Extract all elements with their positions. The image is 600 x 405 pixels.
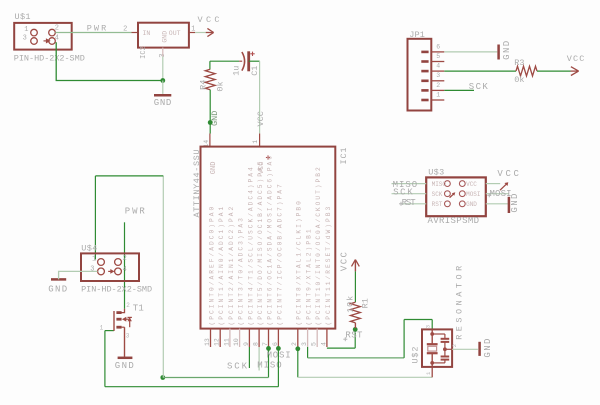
svg-text:U$3: U$3	[428, 168, 444, 178]
junction below IC2	[160, 78, 165, 83]
connector U$3 orientation arrow	[450, 194, 454, 198]
svg-text:6: 6	[272, 342, 279, 346]
svg-text:(PCINT10/INT0/OC0A/CKOUT)PB2: (PCINT10/INT0/OC0A/CKOUT)PB2	[315, 167, 322, 325]
op IC1 ATTINY44-SSU body	[201, 147, 336, 329]
svg-text:(PCINT1/AIN0/ADC1)PA1: (PCINT1/AIN0/ADC1)PA1	[218, 207, 225, 326]
IC1 pin 6 stub	[277, 329, 279, 347]
regulator IC2 IN stub	[132, 32, 139, 34]
svg-text:GND: GND	[502, 41, 512, 60]
wire U$3 RST	[401, 203, 427, 205]
svg-text:GND: GND	[48, 285, 67, 295]
svg-text:2: 2	[126, 302, 130, 309]
svg-text:(PCINT0/AREF/ADC0)PA0: (PCINT0/AREF/ADC0)PA0	[208, 207, 215, 326]
svg-text:RST: RST	[345, 331, 363, 341]
IC1 pin 10 stub	[239, 329, 241, 347]
svg-text:U$4: U$4	[81, 244, 97, 254]
svg-text:13: 13	[204, 338, 211, 346]
svg-text:1u: 1u	[231, 66, 241, 76]
wire RST horizontal from pin4	[327, 347, 355, 349]
resistor R1	[351, 302, 361, 323]
svg-text:MISO: MISO	[432, 181, 447, 188]
resonator U$2 body	[422, 329, 452, 367]
svg-text:11: 11	[223, 338, 230, 346]
resonator junction top	[430, 332, 434, 336]
connector U$1 pad 1	[31, 29, 38, 36]
junction MOSI-to-left-riser	[160, 375, 165, 380]
svg-text:2: 2	[123, 255, 127, 263]
connector U$4 pad 3	[98, 268, 105, 275]
junction PB0 at pin2	[295, 346, 300, 351]
supply VCC arrow (R1)	[354, 260, 356, 271]
wire PA7 from pin6 down	[277, 347, 279, 387]
svg-text:1: 1	[100, 324, 104, 331]
MOSI origin cross (U$3)	[487, 194, 491, 196]
regulator IC2 body	[138, 23, 189, 48]
svg-text:7: 7	[262, 342, 269, 346]
resonator crystal top plate	[427, 343, 438, 345]
svg-text:3: 3	[424, 325, 431, 328]
svg-text:SCK: SCK	[393, 188, 413, 198]
svg-text:1: 1	[24, 26, 28, 34]
transistor T1 channel bars	[116, 311, 121, 314]
wire IC2 GND to junction	[162, 57, 164, 81]
connector U$1 pad 2	[49, 29, 56, 36]
svg-text:GND: GND	[483, 339, 493, 358]
resistor R3	[516, 66, 537, 76]
junction RST at R1 bottom	[353, 327, 358, 332]
transistor T1 source link	[122, 326, 125, 328]
svg-text:IC1: IC1	[339, 148, 349, 165]
svg-text:R4: R4	[199, 80, 209, 90]
ground symbol below IC2	[154, 94, 171, 97]
wire junction to GND symbol	[162, 81, 164, 94]
connector U$4 pad 1	[98, 259, 105, 266]
svg-text:2: 2	[55, 24, 59, 32]
connector U$3 body	[426, 177, 486, 216]
svg-text:GND: GND	[510, 194, 520, 213]
svg-text:RESONATOR: RESONATOR	[455, 266, 465, 340]
wire RST riser to R1	[354, 329, 356, 348]
wire MOSI net top horizontal	[95, 175, 163, 177]
connector U$4 pin4 arrow	[108, 270, 110, 272]
resonator crystal rail bottom	[431, 353, 433, 367]
ground symbol left of U$4	[51, 278, 66, 281]
svg-text:0k: 0k	[215, 81, 225, 91]
wire PB1 horizontal	[308, 357, 405, 359]
wire C1 left to R4 top	[210, 60, 239, 62]
IC1 pin 5 stub	[316, 329, 318, 347]
connector JP1 pad 6	[421, 51, 428, 54]
wire VCC net down to IC1 pin1	[259, 61, 261, 133]
svg-text:8: 8	[253, 342, 260, 346]
svg-text:5: 5	[311, 342, 318, 346]
connector U$3 right pad row 1	[459, 181, 465, 187]
svg-text:3: 3	[90, 265, 94, 273]
svg-text:PIN-HD-2X2-SMD: PIN-HD-2X2-SMD	[81, 285, 152, 295]
svg-text:PWR: PWR	[87, 24, 107, 34]
svg-text:PIN-HD-2X2-SMD: PIN-HD-2X2-SMD	[14, 54, 85, 64]
wire IC2 OUT to VCC	[195, 32, 206, 34]
svg-text:(PCINT2/AIN1/ADC2)PA2: (PCINT2/AIN1/ADC2)PA2	[228, 207, 235, 326]
IC1 pin 2 stub	[297, 329, 299, 347]
svg-text:RST: RST	[432, 201, 443, 208]
ground symbol right of resonator	[478, 342, 481, 356]
connector JP1 pad 4	[421, 70, 428, 73]
IC1 pin 13 stub	[210, 329, 212, 347]
connector U$4 pad 2	[115, 259, 122, 266]
svg-text:4: 4	[320, 342, 327, 346]
svg-text:SCK: SCK	[469, 82, 489, 92]
svg-text:GND: GND	[210, 162, 218, 175]
ground symbol at JP1	[497, 45, 500, 60]
connector JP1 body	[408, 39, 432, 111]
RST label origin cross	[343, 338, 347, 340]
transistor T1 drain lead	[121, 309, 124, 313]
svg-text:GND: GND	[162, 31, 169, 43]
capacitor C1 left lead	[239, 60, 242, 62]
svg-text:10: 10	[233, 338, 240, 346]
connector U$3 right pad row 2	[459, 191, 465, 197]
wire U$3 MOSI	[486, 193, 509, 195]
regulator IC2 OUT stub	[189, 32, 195, 34]
capacitor C1 curved plate	[242, 52, 245, 71]
wire resonator pin2 to GND	[452, 348, 478, 350]
wire MISO stub from pin8	[258, 347, 260, 371]
IC1 pin 14 stub	[209, 134, 211, 147]
connector JP1 pin 2 stub	[431, 89, 444, 91]
svg-text:(PCINT9/XTAL2)PB1: (PCINT9/XTAL2)PB1	[306, 229, 313, 325]
resonator junction bottom	[430, 361, 434, 365]
IC1 pin 8 stub	[258, 329, 260, 347]
connector U$1 pad 4	[49, 38, 56, 45]
svg-text:9: 9	[243, 342, 250, 346]
svg-text:C1: C1	[250, 66, 260, 76]
connector U$3 left pad row 3	[445, 201, 451, 207]
svg-text:2: 2	[451, 344, 458, 347]
wire down to U$4 pin1	[94, 176, 96, 260]
wire PB0 down	[297, 347, 299, 377]
svg-text:RST: RST	[402, 198, 417, 208]
wire MOSI from pin7 down	[268, 347, 270, 378]
connector JP1 pad 1	[421, 99, 428, 102]
connector JP1 pin 1 stub	[431, 99, 444, 101]
supply VCC arrow (top-left)	[206, 32, 214, 34]
svg-text:IN: IN	[143, 30, 151, 37]
wire GND to U$4 pin3	[59, 271, 98, 279]
connector JP1 pin 5 stub	[431, 61, 444, 63]
wire U$3 GND	[486, 203, 508, 205]
svg-text:(PCINT11/RESET/dW)PB3: (PCINT11/RESET/dW)PB3	[325, 207, 332, 326]
connector U$1 pin4 arrow	[44, 40, 47, 42]
svg-text:3: 3	[23, 35, 27, 43]
junction PA7 at pin6	[276, 346, 281, 351]
wire PWR net U$1 pin2 to IC2 IN	[55, 32, 131, 34]
connector U$3 left pad row 2	[445, 191, 451, 197]
connector U$1 pad 3	[31, 38, 38, 45]
supply VCC arrow (right)	[571, 70, 579, 72]
wire SCK stub from pin9	[248, 347, 250, 368]
connector JP1 pin 6 stub	[431, 51, 444, 53]
svg-text:2: 2	[291, 342, 298, 346]
svg-text:1: 1	[252, 140, 259, 144]
IC1 pin 9 stub	[248, 329, 250, 347]
IC1 VCC plus marker	[266, 157, 270, 159]
connector JP1 pin 3 stub	[431, 80, 444, 82]
svg-text:OUT: OUT	[169, 30, 181, 37]
svg-text:VCC: VCC	[256, 111, 266, 126]
svg-text:12: 12	[214, 338, 221, 346]
svg-text:SCK: SCK	[432, 191, 443, 198]
svg-text:3: 3	[436, 72, 440, 79]
svg-text:0k: 0k	[514, 75, 524, 85]
svg-text:(PCINT8/XTAL1/CLKI)PB0: (PCINT8/XTAL1/CLKI)PB0	[296, 201, 303, 326]
wire U$1 pin4 to GND junction	[56, 42, 163, 80]
svg-text:VCC: VCC	[497, 169, 519, 179]
junction at IC1 pin14	[208, 120, 213, 125]
svg-text:(PCINT6/OC1A/SDA/MOSI/ADC6)PA6: (PCINT6/OC1A/SDA/MOSI/ADC6)PA6	[266, 156, 273, 326]
svg-text:AVRISPSMD: AVRISPSMD	[428, 216, 480, 226]
resistor R4	[205, 69, 215, 89]
wire JP1 pin2 SCK	[444, 89, 474, 91]
wire T1 gate riser	[104, 331, 106, 387]
wire T1 gate lead	[105, 330, 114, 332]
connector U$4 body	[81, 253, 139, 281]
resonator crystal rail top	[431, 329, 433, 344]
svg-text:GND: GND	[154, 98, 172, 108]
transistor T1 body diode	[129, 317, 131, 327]
IC1 pin 1 stub	[259, 134, 261, 147]
wire junction to pin14 stub	[209, 123, 211, 134]
svg-text:4: 4	[55, 35, 59, 43]
IC1 pin 4 stub	[326, 329, 328, 347]
RST origin cross (U$3)	[399, 203, 403, 205]
transistor T1 gate plate	[113, 311, 115, 331]
resonator crystal rect	[428, 346, 437, 351]
regulator IC2 GND stub	[162, 48, 164, 57]
svg-text:VCC: VCC	[466, 181, 477, 188]
svg-text:IC2: IC2	[140, 46, 148, 59]
svg-text:VCC: VCC	[198, 15, 220, 25]
ground symbol below T1	[118, 357, 133, 360]
wire PB1 riser	[403, 320, 405, 358]
resonator bottom cap branch	[444, 349, 446, 356]
resonator mid junction	[443, 347, 447, 351]
supply VCC arrow (U$3)	[500, 184, 506, 190]
wire C1 right plate to VCC net	[249, 60, 260, 62]
wire into resonator pin3	[431, 320, 433, 330]
svg-text:3: 3	[301, 342, 308, 346]
wire PWR net vertical through U$4 to T1 drain	[124, 222, 126, 308]
svg-text:3: 3	[126, 333, 130, 340]
svg-text:2: 2	[123, 26, 127, 34]
svg-text:SCK: SCK	[227, 361, 248, 371]
svg-text:VCC: VCC	[567, 54, 585, 64]
svg-text:1: 1	[92, 255, 96, 263]
svg-text:R1: R1	[360, 298, 370, 308]
connector U$3 left pad row 1	[445, 181, 451, 187]
junction on MOSI at pin7	[266, 346, 271, 351]
wire JP1 pin6 to GND	[444, 51, 497, 53]
wire R3 to VCC	[537, 70, 571, 72]
svg-text:MOSI: MOSI	[466, 191, 480, 198]
svg-text:10k: 10k	[346, 296, 356, 313]
wire JP1 pin4 to R3	[444, 70, 516, 72]
resistor R1 bottom lead	[354, 323, 356, 328]
svg-text:GND: GND	[466, 201, 477, 208]
IC1 pin 12 stub	[219, 329, 221, 347]
resistor R4 top wire	[209, 61, 211, 69]
IC1 pin 11 stub	[229, 329, 231, 347]
wire R4 bottom to IC1 pin14	[209, 90, 211, 123]
connector U$3 right pad row 3	[459, 201, 465, 207]
connector U$1 PIN-HD-2X2-SMD body	[14, 23, 71, 50]
svg-text:6: 6	[436, 43, 440, 50]
wire U$3 SCK	[392, 193, 427, 195]
connector JP1 pin 4 stub	[431, 70, 444, 72]
svg-text:1: 1	[191, 26, 195, 34]
resonator pin2 lead	[445, 348, 452, 350]
svg-text:U$2: U$2	[411, 347, 421, 364]
resonator pin1 lead	[431, 367, 433, 377]
wire VCC to R1 top	[354, 271, 356, 302]
wire PA7 bottom horizontal to T1 gate	[105, 386, 279, 388]
wire PB0 to resonator pin1	[298, 376, 432, 378]
wire PB1 top horizontal	[404, 319, 432, 321]
ground symbol at U$3	[508, 197, 511, 213]
IC1 pin 3 stub	[307, 329, 309, 347]
resonator crystal bottom plate	[427, 352, 438, 354]
connector JP1 pad 5	[421, 60, 428, 63]
wire U$3 VCC	[486, 183, 500, 185]
wire MOSI horizontal run	[163, 377, 269, 379]
svg-text:(PCINT5/DO/MISO/OC1B/ADC5)PA5: (PCINT5/DO/MISO/OC1B/ADC5)PA5	[257, 161, 264, 325]
IC1 pin 7 stub	[268, 329, 270, 347]
svg-text:1: 1	[436, 91, 440, 98]
svg-text:ATTINY44-SSU: ATTINY44-SSU	[192, 149, 202, 217]
wire PB1 down	[307, 347, 309, 358]
svg-text:GND: GND	[115, 361, 134, 371]
svg-text:4: 4	[436, 63, 440, 70]
wire U$3 MISO	[392, 183, 427, 185]
capacitor C1 plus sign	[250, 53, 254, 55]
connector JP1 pad 3	[421, 80, 428, 83]
transistor T1 bulk arrow	[122, 317, 126, 322]
wire left riser (MOSI net)	[162, 176, 164, 378]
svg-text:T1: T1	[133, 303, 144, 313]
svg-text:U$1: U$1	[15, 12, 31, 22]
capacitor C1 straight plate	[247, 51, 250, 71]
svg-text:2: 2	[436, 82, 440, 89]
svg-text:VCC: VCC	[340, 252, 350, 272]
svg-text:5: 5	[436, 53, 440, 60]
connector U$4 pad 4	[115, 268, 122, 275]
svg-text:4: 4	[123, 266, 127, 274]
transistor T1 source lead	[124, 327, 126, 357]
svg-text:(PCINT4/T1/SCL/USCK/ADC4)PA4: (PCINT4/T1/SCL/USCK/ADC4)PA4	[247, 167, 254, 325]
connector JP1 pad 2	[421, 89, 428, 92]
svg-text:PWR: PWR	[125, 207, 146, 217]
resonator top cap branch	[432, 333, 445, 335]
transistor T1 bulk link	[125, 318, 130, 320]
